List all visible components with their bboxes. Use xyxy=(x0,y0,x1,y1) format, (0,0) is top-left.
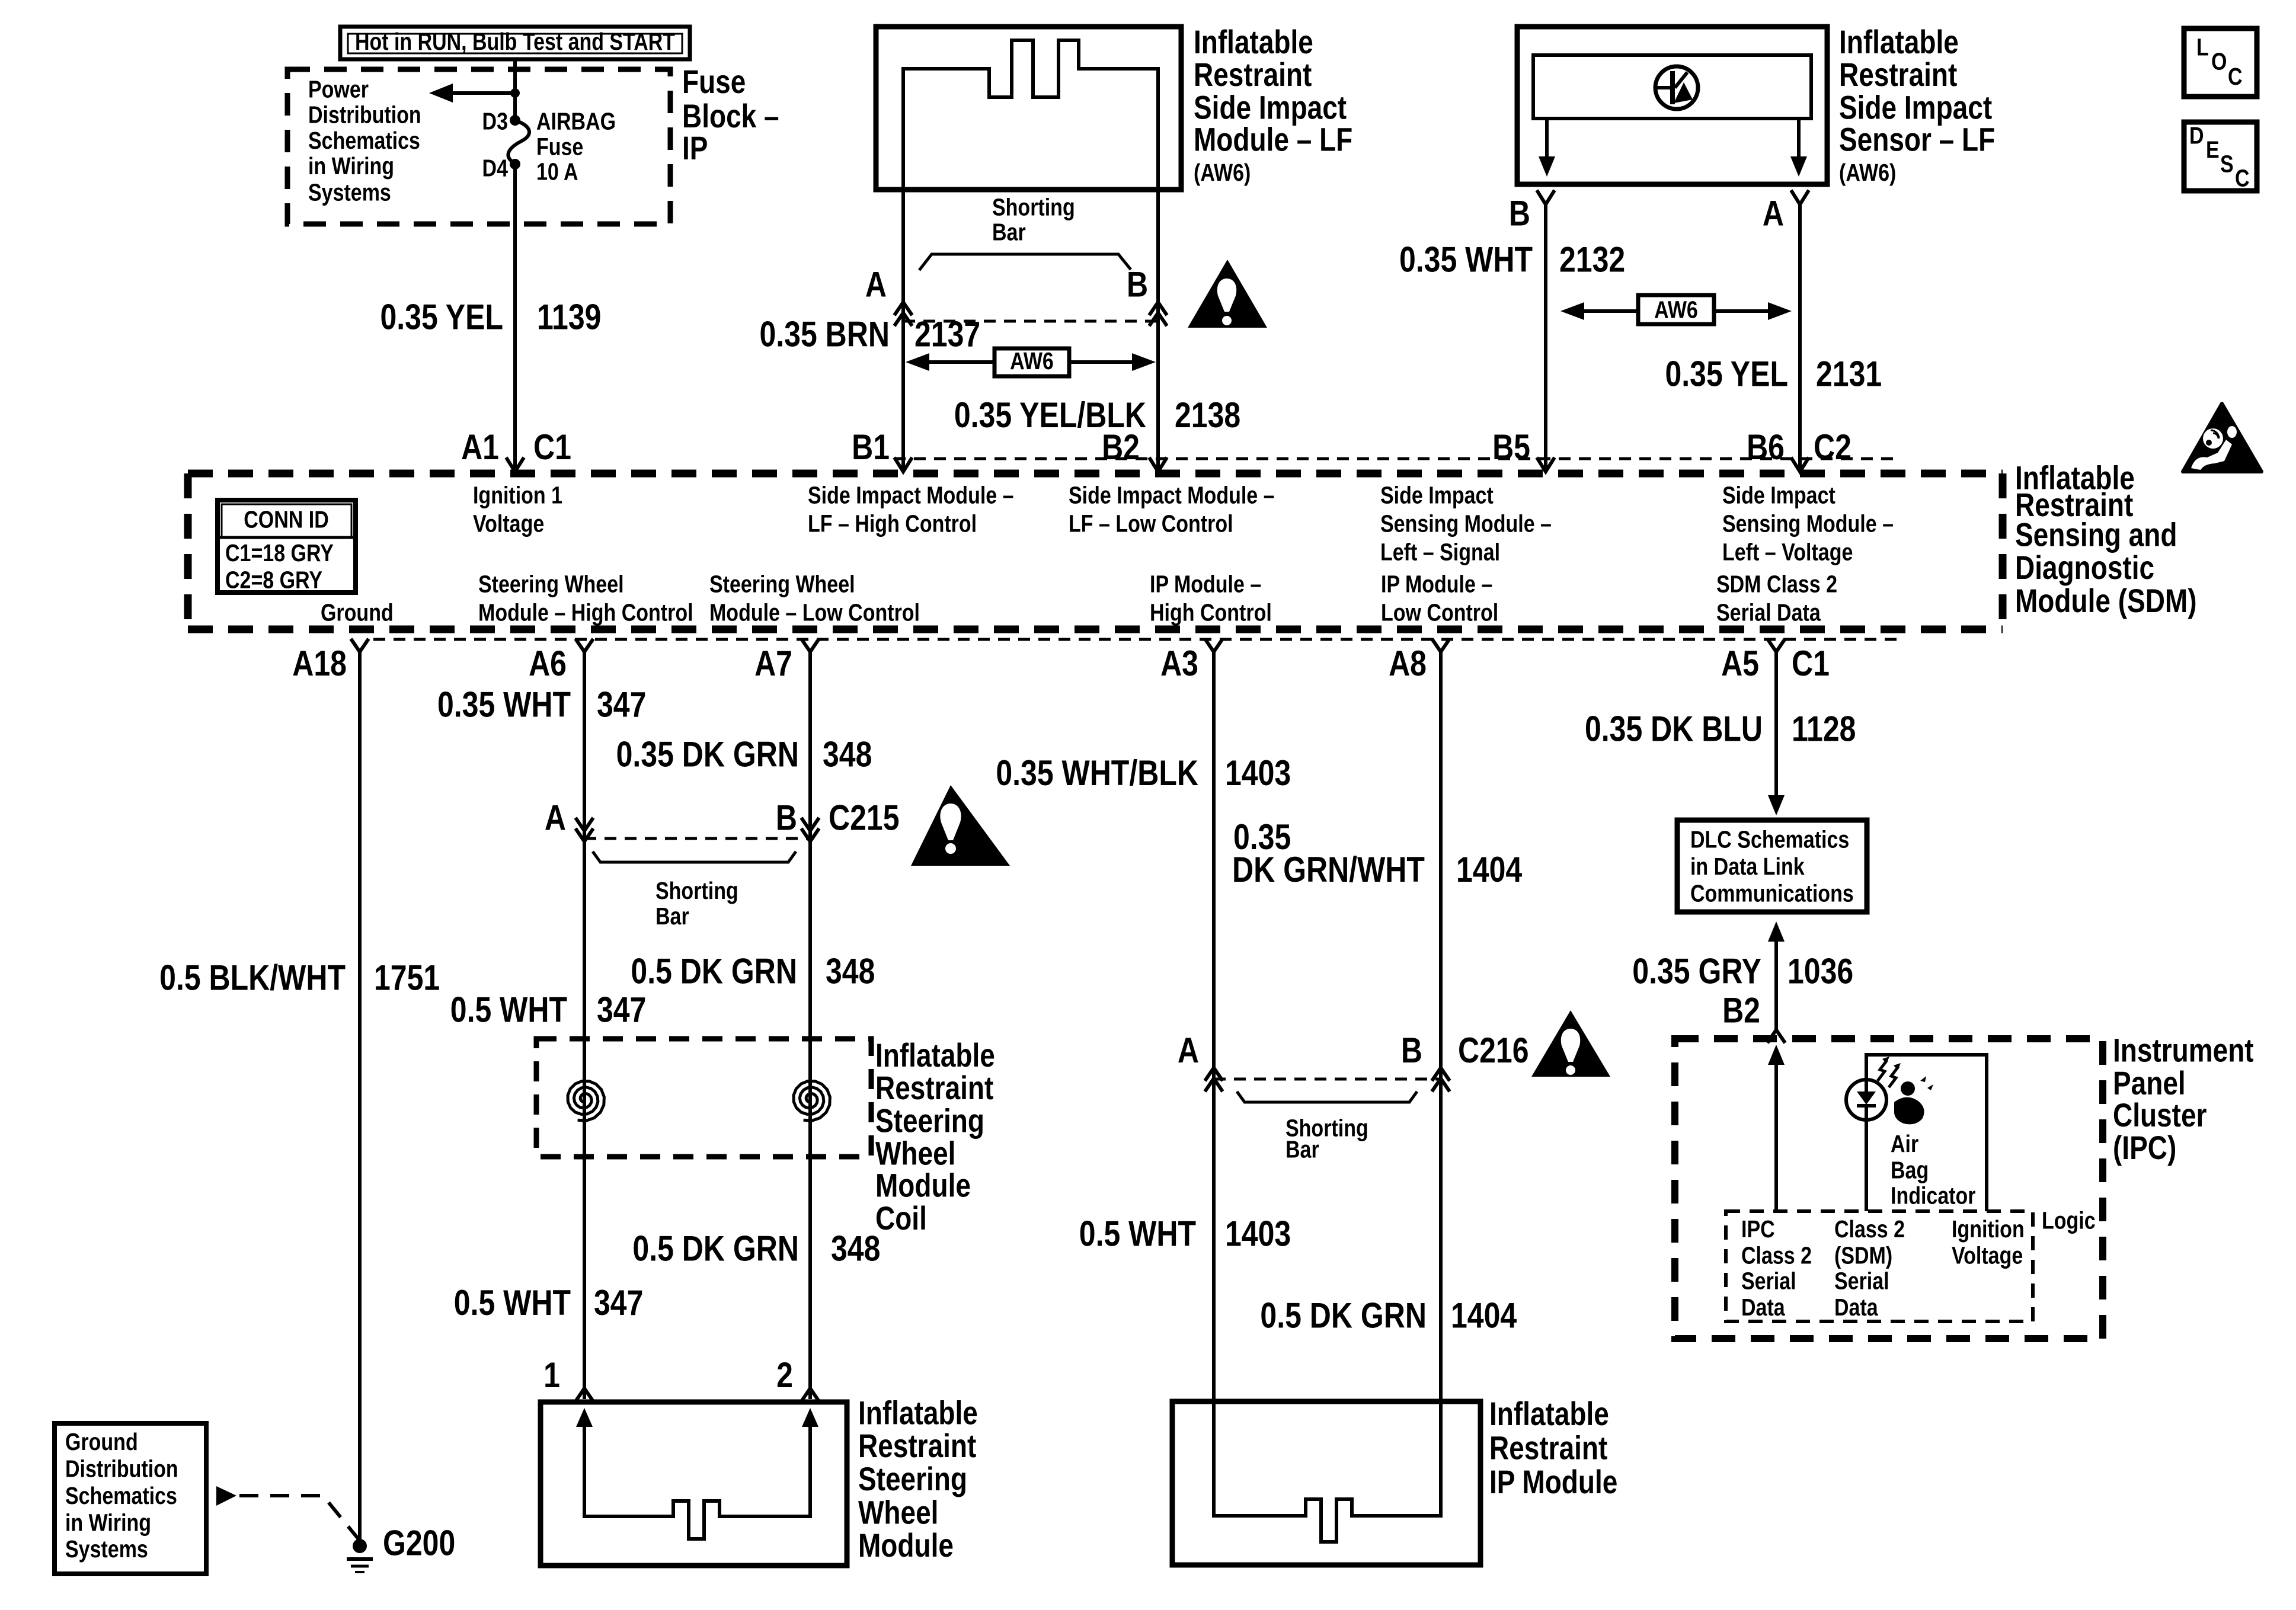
SDM pin function: Ignition 1 Voltage xyxy=(473,482,562,537)
wire: SDM A8 to IP module xyxy=(1439,652,1443,1516)
wire: sensor pin A to SDM B6 xyxy=(1798,204,1802,470)
wire: serial data into IPC logic xyxy=(1774,1061,1778,1211)
svg-text:DK GRN/WHT: DK GRN/WHT xyxy=(1232,850,1425,889)
svg-text:B: B xyxy=(1127,264,1148,304)
svg-text:347: 347 xyxy=(597,684,646,724)
pin A5 label xyxy=(1721,644,1759,683)
connector profile inside module xyxy=(903,40,1158,188)
svg-text:Ignition: Ignition xyxy=(1952,1215,2025,1243)
wire label: 0.35 DK GRN 348 xyxy=(616,734,872,774)
SDM pin function: SDM Class 2 Serial Data xyxy=(1716,571,1837,626)
svg-text:Data: Data xyxy=(1741,1294,1786,1321)
pin A8 label xyxy=(1389,644,1427,683)
svg-text:Voltage: Voltage xyxy=(473,510,544,537)
svg-text:Left – Signal: Left – Signal xyxy=(1380,539,1500,566)
wire label: 0.5 WHT 347 (lower) xyxy=(454,1282,644,1322)
svg-text:Side Impact: Side Impact xyxy=(1722,482,1835,509)
wire label: 0.35 DK GRN/WHT 1404 xyxy=(1232,817,1522,889)
box: Hot in RUN, Bulb Test and START xyxy=(340,27,690,59)
svg-text:0.35 YEL: 0.35 YEL xyxy=(380,297,503,337)
svg-text:Serial: Serial xyxy=(1834,1267,1889,1295)
connector chevron at B2 xyxy=(1149,457,1167,472)
module: Inflatable Restraint Steering Wheel Module box xyxy=(541,1402,847,1566)
pin C1 label (SDM bottom) xyxy=(1792,644,1830,683)
svg-text:Side Impact: Side Impact xyxy=(1194,89,1347,126)
svg-text:C: C xyxy=(2235,164,2250,191)
ground G200 symbol xyxy=(347,1539,373,1572)
svg-text:C1: C1 xyxy=(1792,644,1830,683)
DESC reference box xyxy=(2184,122,2257,191)
svg-text:Distribution: Distribution xyxy=(308,101,421,129)
node G200 label xyxy=(383,1523,455,1563)
airbag person pictograph xyxy=(1894,1076,1933,1124)
wire label: 0.5 WHT 1403 xyxy=(1079,1214,1291,1253)
svg-text:Low Control: Low Control xyxy=(1381,599,1498,626)
wire: LED cathode to logic xyxy=(1865,1119,1868,1211)
svg-text:C215: C215 xyxy=(829,798,900,837)
wire label: 0.35 BRN 2137 xyxy=(759,314,980,354)
svg-text:Class 2: Class 2 xyxy=(1834,1215,1905,1243)
pin 1 label xyxy=(543,1355,560,1395)
label: Shorting Bar (C215) xyxy=(655,877,738,930)
junction dot xyxy=(510,88,520,98)
svg-text:Fuse: Fuse xyxy=(536,133,583,161)
svg-text:Class 2: Class 2 xyxy=(1741,1241,1812,1269)
svg-text:Voltage: Voltage xyxy=(1952,1241,2023,1269)
connector chevron below sensor pin B xyxy=(1537,190,1555,204)
svg-text:AW6: AW6 xyxy=(1010,347,1054,375)
harness AW6 span arrows xyxy=(906,348,1156,376)
connector chevron at A5 xyxy=(1767,639,1785,652)
shorting bar bracket at C215 xyxy=(593,852,796,862)
LOC reference box xyxy=(2184,28,2257,97)
SDM pin function: IP Module - Low Control xyxy=(1381,571,1498,626)
connector chevron at B6 xyxy=(1791,457,1809,472)
arrowhead pin 1 inside module xyxy=(576,1408,593,1427)
accelerometer symbol xyxy=(1654,66,1698,109)
svg-text:S: S xyxy=(2220,150,2234,177)
svg-text:AW6: AW6 xyxy=(1654,296,1698,323)
svg-text:A8: A8 xyxy=(1389,644,1427,683)
connector chevron at B5 xyxy=(1537,457,1555,472)
svg-text:Bag: Bag xyxy=(1891,1156,1929,1183)
pin A label at C216 xyxy=(1178,1030,1199,1070)
svg-text:Restraint: Restraint xyxy=(1489,1429,1607,1466)
connector C215 chevrons pin B xyxy=(801,818,819,841)
connector chevron at A7 xyxy=(801,639,819,652)
svg-text:1036: 1036 xyxy=(1787,951,1853,991)
svg-text:B5: B5 xyxy=(1492,427,1530,467)
connector chevrons pin A xyxy=(894,302,912,326)
svg-text:Side Impact: Side Impact xyxy=(1839,89,1992,126)
pin 2 label xyxy=(776,1355,793,1395)
wire: sensor pin B to SDM B5 xyxy=(1544,204,1547,470)
pointer arrow from ground distribution box xyxy=(216,1486,236,1506)
svg-text:Restraint: Restraint xyxy=(1839,56,1957,93)
svg-text:Inflatable: Inflatable xyxy=(1839,24,1959,60)
connector C215 dashed interface line xyxy=(584,837,810,840)
svg-text:Ground: Ground xyxy=(65,1428,138,1455)
svg-text:CONN ID: CONN ID xyxy=(244,505,329,533)
svg-text:0.35 WHT: 0.35 WHT xyxy=(1399,239,1533,279)
wire: SDM A5 serial data to DLC xyxy=(1774,652,1778,798)
svg-text:0.5 DK GRN: 0.5 DK GRN xyxy=(631,951,797,991)
svg-text:Left – Voltage: Left – Voltage xyxy=(1722,539,1853,566)
pin A label xyxy=(865,264,887,304)
wire label: 0.5 DK GRN 1404 xyxy=(1260,1295,1517,1335)
svg-text:1403: 1403 xyxy=(1225,1214,1291,1253)
svg-text:Ground: Ground xyxy=(321,599,394,626)
svg-text:2137: 2137 xyxy=(914,314,980,354)
svg-text:1403: 1403 xyxy=(1225,753,1291,792)
svg-text:A18: A18 xyxy=(292,644,347,683)
svg-text:2132: 2132 xyxy=(1559,239,1625,279)
connector C215 chevrons pin A xyxy=(575,818,593,841)
svg-text:Module – High Control: Module – High Control xyxy=(478,599,693,626)
LED: air bag indicator lamp xyxy=(1846,1080,1886,1120)
connector chevron at A3 xyxy=(1205,639,1223,652)
svg-text:(SDM): (SDM) xyxy=(1834,1241,1892,1269)
svg-text:0.35 WHT: 0.35 WHT xyxy=(437,684,571,724)
svg-text:High Control: High Control xyxy=(1150,599,1272,626)
arrowhead into DLC box xyxy=(1768,795,1785,815)
svg-text:E: E xyxy=(2206,136,2220,163)
svg-text:DLC Schematics: DLC Schematics xyxy=(1690,825,1849,853)
svg-text:Inflatable: Inflatable xyxy=(858,1395,978,1432)
svg-text:A: A xyxy=(865,264,887,304)
svg-text:C2: C2 xyxy=(1814,427,1851,467)
svg-text:Cluster: Cluster xyxy=(2113,1097,2207,1134)
svg-text:Panel: Panel xyxy=(2113,1065,2186,1102)
squib circuit inside steering wheel module xyxy=(584,1422,810,1539)
svg-text:(IPC): (IPC) xyxy=(2113,1129,2176,1166)
svg-text:Inflatable: Inflatable xyxy=(875,1037,995,1074)
connector chevron at pin 2 xyxy=(801,1388,819,1401)
coil: Inflatable Restraint Steering Wheel Module Coil dashed box xyxy=(536,1039,871,1157)
SDM pin function: Steering Wheel Module - High Control xyxy=(478,571,693,626)
arrowhead up into DLC box bottom xyxy=(1768,921,1785,942)
wire: ignition feed into fuse xyxy=(513,59,517,120)
svg-text:Systems: Systems xyxy=(308,178,391,206)
svg-text:348: 348 xyxy=(823,734,872,774)
svg-text:0.5 WHT: 0.5 WHT xyxy=(450,990,567,1029)
harness AW6 span arrows (sensor) xyxy=(1560,295,1792,324)
svg-text:A5: A5 xyxy=(1721,644,1759,683)
svg-text:Inflatable: Inflatable xyxy=(1194,24,1313,60)
CONN ID table xyxy=(218,500,356,593)
svg-text:1: 1 xyxy=(543,1355,560,1395)
svg-text:IP: IP xyxy=(682,130,708,167)
wire label: 0.5 DK GRN 348 xyxy=(631,951,875,991)
shorting bar bracket xyxy=(919,254,1131,270)
wire label: 0.35 YEL 2131 xyxy=(1665,354,1882,393)
svg-text:(AW6): (AW6) xyxy=(1194,159,1251,186)
svg-text:Steering Wheel: Steering Wheel xyxy=(709,571,855,598)
note: Power Distribution Schematics in Wiring Systems xyxy=(308,75,421,206)
svg-text:0.35 GRY: 0.35 GRY xyxy=(1632,951,1761,991)
SDM pin function: Side Impact Module - LF - Low Control xyxy=(1069,482,1275,537)
sensor internal lead B with arrow xyxy=(1539,119,1555,177)
label: Inflatable Restraint IP Module xyxy=(1489,1395,1617,1500)
label: Shorting Bar (C216) xyxy=(1285,1115,1368,1163)
warning triangle at C216 xyxy=(1531,1010,1610,1077)
svg-text:Distribution: Distribution xyxy=(65,1455,178,1482)
svg-text:Wheel: Wheel xyxy=(858,1494,938,1531)
svg-text:Power: Power xyxy=(308,75,369,103)
svg-text:A: A xyxy=(1178,1030,1199,1070)
svg-text:A6: A6 xyxy=(529,644,567,683)
svg-text:A3: A3 xyxy=(1160,644,1198,683)
connector C216 label xyxy=(1458,1030,1529,1070)
wire label: 0.35 WHT 347 xyxy=(437,684,646,724)
connector chevron at A8 xyxy=(1432,639,1450,652)
wire label: 0.35 WHT 2132 xyxy=(1399,239,1625,279)
svg-text:2131: 2131 xyxy=(1816,354,1882,393)
svg-text:Inflatable: Inflatable xyxy=(1489,1395,1609,1432)
wire: module pin A lead xyxy=(901,188,905,470)
wire label: 0.5 DK GRN 348 (lower) xyxy=(632,1228,880,1268)
label: Inflatable Restraint Steering Wheel Module xyxy=(858,1395,978,1564)
svg-text:Module – LF: Module – LF xyxy=(1194,121,1352,158)
shorting bar bracket at C216 xyxy=(1237,1092,1417,1102)
svg-text:348: 348 xyxy=(831,1228,880,1268)
svg-text:Ignition 1: Ignition 1 xyxy=(473,482,562,509)
label: IPC Class 2 Serial Data xyxy=(1741,1215,1812,1321)
svg-text:Restraint: Restraint xyxy=(858,1427,976,1464)
pin B6 label xyxy=(1747,427,1785,467)
svg-text:IP Module: IP Module xyxy=(1489,1464,1617,1500)
svg-text:B1: B1 xyxy=(852,427,890,467)
svg-text:Logic: Logic xyxy=(2042,1207,2096,1234)
pin B2 label xyxy=(1102,427,1140,467)
svg-text:Indicator: Indicator xyxy=(1891,1182,1976,1209)
svg-text:0.35 DK BLU: 0.35 DK BLU xyxy=(1585,709,1763,748)
wire: 0.35 YEL 1139 from fuse to SDM A1 xyxy=(513,164,517,470)
svg-text:(AW6): (AW6) xyxy=(1839,159,1896,186)
svg-text:Restraint: Restraint xyxy=(875,1070,993,1106)
pin A label xyxy=(1763,193,1784,233)
svg-text:D4: D4 xyxy=(482,155,509,182)
svg-text:Systems: Systems xyxy=(65,1535,148,1563)
svg-text:Module: Module xyxy=(875,1167,971,1204)
svg-text:D3: D3 xyxy=(482,107,508,135)
wire: module pin B lead xyxy=(1156,188,1160,470)
pin B2 label (IPC) xyxy=(1722,990,1760,1030)
box: Ground Distribution Schematics in Wiring Systems xyxy=(55,1423,206,1574)
SIR airbag caution triangle icon xyxy=(2183,404,2262,472)
connector C216 chevrons pin B xyxy=(1432,1068,1450,1092)
svg-text:Data: Data xyxy=(1834,1294,1879,1321)
svg-text:0.5 BLK/WHT: 0.5 BLK/WHT xyxy=(159,958,346,997)
fuse block IP dashed box xyxy=(287,69,670,224)
svg-text:Shorting: Shorting xyxy=(655,877,738,904)
wire: SDM A6 to steering wheel module pin 1 xyxy=(583,652,586,1399)
svg-text:0.35 DK GRN: 0.35 DK GRN xyxy=(616,734,799,774)
label: Shorting Bar (module connector) xyxy=(992,194,1075,246)
svg-text:Steering Wheel: Steering Wheel xyxy=(478,571,624,598)
LED light rays xyxy=(1878,1057,1901,1087)
svg-text:0.5 WHT: 0.5 WHT xyxy=(454,1282,571,1322)
svg-text:Communications: Communications xyxy=(1690,880,1854,907)
connector chevron at B1 xyxy=(894,457,912,472)
svg-text:Air: Air xyxy=(1891,1130,1919,1157)
svg-text:1404: 1404 xyxy=(1456,850,1522,889)
svg-text:1139: 1139 xyxy=(537,297,601,337)
svg-text:Side Impact Module –: Side Impact Module – xyxy=(1069,482,1275,509)
pin B label at C215 xyxy=(776,798,797,837)
svg-text:B: B xyxy=(1509,193,1530,233)
svg-text:Bar: Bar xyxy=(1285,1136,1319,1163)
svg-text:B2: B2 xyxy=(1722,990,1760,1030)
svg-text:Fuse: Fuse xyxy=(682,63,746,100)
node D3 xyxy=(510,115,520,126)
svg-text:B: B xyxy=(1401,1030,1422,1070)
svg-text:G200: G200 xyxy=(383,1523,455,1563)
wire: arrow to power distribution xyxy=(449,91,515,95)
svg-text:Module – Low Control: Module – Low Control xyxy=(709,599,920,626)
coil spiral right xyxy=(794,1081,830,1121)
svg-text:Steering: Steering xyxy=(875,1102,984,1139)
label: Inflatable Restraint Steering Wheel Module Coil xyxy=(875,1037,995,1237)
SDM pin function: Side Impact Module - LF - High Control xyxy=(808,482,1014,537)
label: Inflatable Restraint Sensing and Diagnostic Module (SDM) xyxy=(2015,460,2197,620)
pin B1 label xyxy=(852,427,890,467)
connector face dashed line (top, C1/C2 side) xyxy=(894,457,1899,460)
svg-text:C216: C216 xyxy=(1458,1030,1529,1070)
wire: SDM A7 to steering wheel module pin 2 xyxy=(808,652,812,1399)
arrowhead inside IPC xyxy=(1768,1045,1785,1065)
svg-text:Diagnostic: Diagnostic xyxy=(2015,549,2154,586)
pin C2 label xyxy=(1814,427,1851,467)
svg-text:Sensing and: Sensing and xyxy=(2015,517,2177,553)
svg-text:2: 2 xyxy=(776,1355,793,1395)
squib circuit inside IP module xyxy=(1214,1401,1441,1542)
svg-text:Module: Module xyxy=(858,1527,954,1564)
connector chevron at pin 1 xyxy=(575,1388,593,1401)
connector chevrons pin B xyxy=(1149,302,1167,326)
node D4 xyxy=(510,159,520,169)
pin A7 label xyxy=(754,644,792,683)
wire: 0.5 BLK/WHT 1751 ground wire xyxy=(358,652,362,1539)
svg-text:C1: C1 xyxy=(533,427,571,467)
connector chevron at A6 xyxy=(575,639,593,652)
svg-text:in Wiring: in Wiring xyxy=(308,152,394,180)
svg-text:347: 347 xyxy=(594,1282,643,1322)
module: Inflatable Restraint Side Impact Module - LF box xyxy=(876,27,1181,190)
svg-text:Sensing Module –: Sensing Module – xyxy=(1380,510,1552,537)
label AW6 xyxy=(1654,296,1698,323)
wire label: 0.35 YEL/BLK 2138 xyxy=(954,395,1240,435)
sensor: Inflatable Restraint Side Impact Sensor - LF box xyxy=(1517,27,1827,184)
IPC: Instrument Panel Cluster dashed box xyxy=(1675,1039,2103,1339)
label: Inflatable Restraint Side Impact Sensor - LF (AW6) xyxy=(1839,24,1995,185)
svg-text:1751: 1751 xyxy=(374,958,440,997)
svg-text:AIRBAG: AIRBAG xyxy=(536,107,616,135)
fuse F1: AIRBAG Fuse 10 A xyxy=(508,120,529,164)
svg-text:IP Module –: IP Module – xyxy=(1381,571,1492,598)
svg-text:B6: B6 xyxy=(1747,427,1785,467)
warning triangle (module LF) xyxy=(1188,260,1267,328)
svg-text:0.5 DK GRN: 0.5 DK GRN xyxy=(632,1228,799,1268)
svg-text:0.5 WHT: 0.5 WHT xyxy=(1079,1214,1196,1253)
wire: 0.35 GRY 1036 from IPC to DLC xyxy=(1774,939,1778,1030)
label: Class 2 (SDM) Serial Data xyxy=(1834,1215,1905,1321)
svg-text:0.35 BRN: 0.35 BRN xyxy=(759,314,890,354)
SDM pin function: Ground xyxy=(321,599,394,626)
svg-text:Schematics: Schematics xyxy=(65,1482,177,1509)
svg-text:2138: 2138 xyxy=(1175,395,1240,435)
svg-text:IP Module –: IP Module – xyxy=(1150,571,1261,598)
svg-text:0.35 YEL: 0.35 YEL xyxy=(1665,354,1788,393)
pin A18 label xyxy=(292,644,347,683)
svg-text:SDM Class 2: SDM Class 2 xyxy=(1716,571,1837,598)
svg-text:0.35 WHT/BLK: 0.35 WHT/BLK xyxy=(996,753,1198,792)
svg-text:1128: 1128 xyxy=(1792,709,1856,748)
warning triangle at C215 xyxy=(911,785,1010,866)
pin B label at C216 xyxy=(1401,1030,1422,1070)
connector face dashed line (bottom) xyxy=(373,638,1899,641)
svg-text:Steering: Steering xyxy=(858,1461,967,1497)
sensor inner element box xyxy=(1533,55,1811,119)
connector chevron below sensor pin A xyxy=(1791,190,1809,204)
logic block dashed box xyxy=(1726,1211,2033,1321)
label AW6 xyxy=(1010,347,1054,375)
svg-text:Sensor – LF: Sensor – LF xyxy=(1839,121,1995,158)
connector C215 label xyxy=(829,798,900,837)
svg-text:Schematics: Schematics xyxy=(308,127,420,154)
module: Inflatable Restraint IP Module box xyxy=(1172,1401,1480,1565)
svg-text:Wheel: Wheel xyxy=(875,1135,955,1172)
connector chevron at B2 xyxy=(1767,1030,1785,1043)
connector C216 dashed interface line xyxy=(1214,1078,1441,1081)
svg-text:IPC: IPC xyxy=(1741,1215,1775,1243)
pin A label at C215 xyxy=(545,798,566,837)
svg-text:Bar: Bar xyxy=(655,902,689,930)
svg-text:in Wiring: in Wiring xyxy=(65,1509,151,1537)
svg-text:Instrument: Instrument xyxy=(2113,1032,2254,1069)
pin A6 label xyxy=(529,644,567,683)
svg-text:Side Impact Module –: Side Impact Module – xyxy=(808,482,1014,509)
arrowhead pin 2 inside module xyxy=(802,1408,818,1427)
connector C216 chevrons pin A xyxy=(1205,1068,1223,1092)
label: Fuse Block - IP xyxy=(682,63,779,167)
label: Air Bag Indicator xyxy=(1891,1130,1976,1209)
svg-text:O: O xyxy=(2211,48,2227,75)
svg-text:348: 348 xyxy=(826,951,875,991)
sensor internal lead A with arrow xyxy=(1790,119,1807,177)
SDM pin function: IP Module - High Control xyxy=(1150,571,1272,626)
svg-text:1404: 1404 xyxy=(1451,1295,1517,1335)
svg-text:in Data Link: in Data Link xyxy=(1690,853,1805,880)
pin A1 / C1 labels xyxy=(461,427,571,467)
label: Instrument Panel Cluster (IPC) xyxy=(2113,1032,2254,1166)
pin B label xyxy=(1127,264,1148,304)
wire: SDM A3 to IP module xyxy=(1212,652,1216,1516)
svg-text:10 A: 10 A xyxy=(536,158,578,185)
connector interface dashed line xyxy=(903,320,1158,323)
svg-text:Shorting: Shorting xyxy=(992,194,1075,221)
svg-text:A: A xyxy=(545,798,566,837)
svg-text:Sensing Module –: Sensing Module – xyxy=(1722,510,1894,537)
pin A3 label xyxy=(1160,644,1198,683)
svg-text:L: L xyxy=(2196,34,2209,61)
svg-text:A7: A7 xyxy=(754,644,792,683)
pin B5 label xyxy=(1492,427,1530,467)
svg-text:Restraint: Restraint xyxy=(1194,56,1312,93)
coil spiral left xyxy=(568,1081,604,1121)
svg-text:A: A xyxy=(1763,193,1784,233)
svg-text:Coil: Coil xyxy=(875,1200,927,1237)
